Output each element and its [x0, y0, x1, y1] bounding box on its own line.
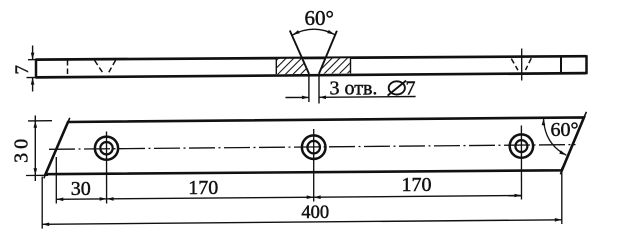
svg-text:3 отв.: 3 отв. — [330, 78, 378, 100]
svg-text:170: 170 — [402, 174, 432, 196]
svg-text:30: 30 — [71, 178, 91, 200]
svg-text:400: 400 — [301, 203, 329, 223]
svg-text:60°: 60° — [305, 6, 334, 30]
svg-text:7: 7 — [12, 65, 33, 75]
svg-text:60°: 60° — [551, 119, 579, 141]
svg-text:7: 7 — [406, 78, 416, 100]
svg-text:170: 170 — [188, 177, 218, 199]
svg-text:30: 30 — [11, 135, 33, 163]
